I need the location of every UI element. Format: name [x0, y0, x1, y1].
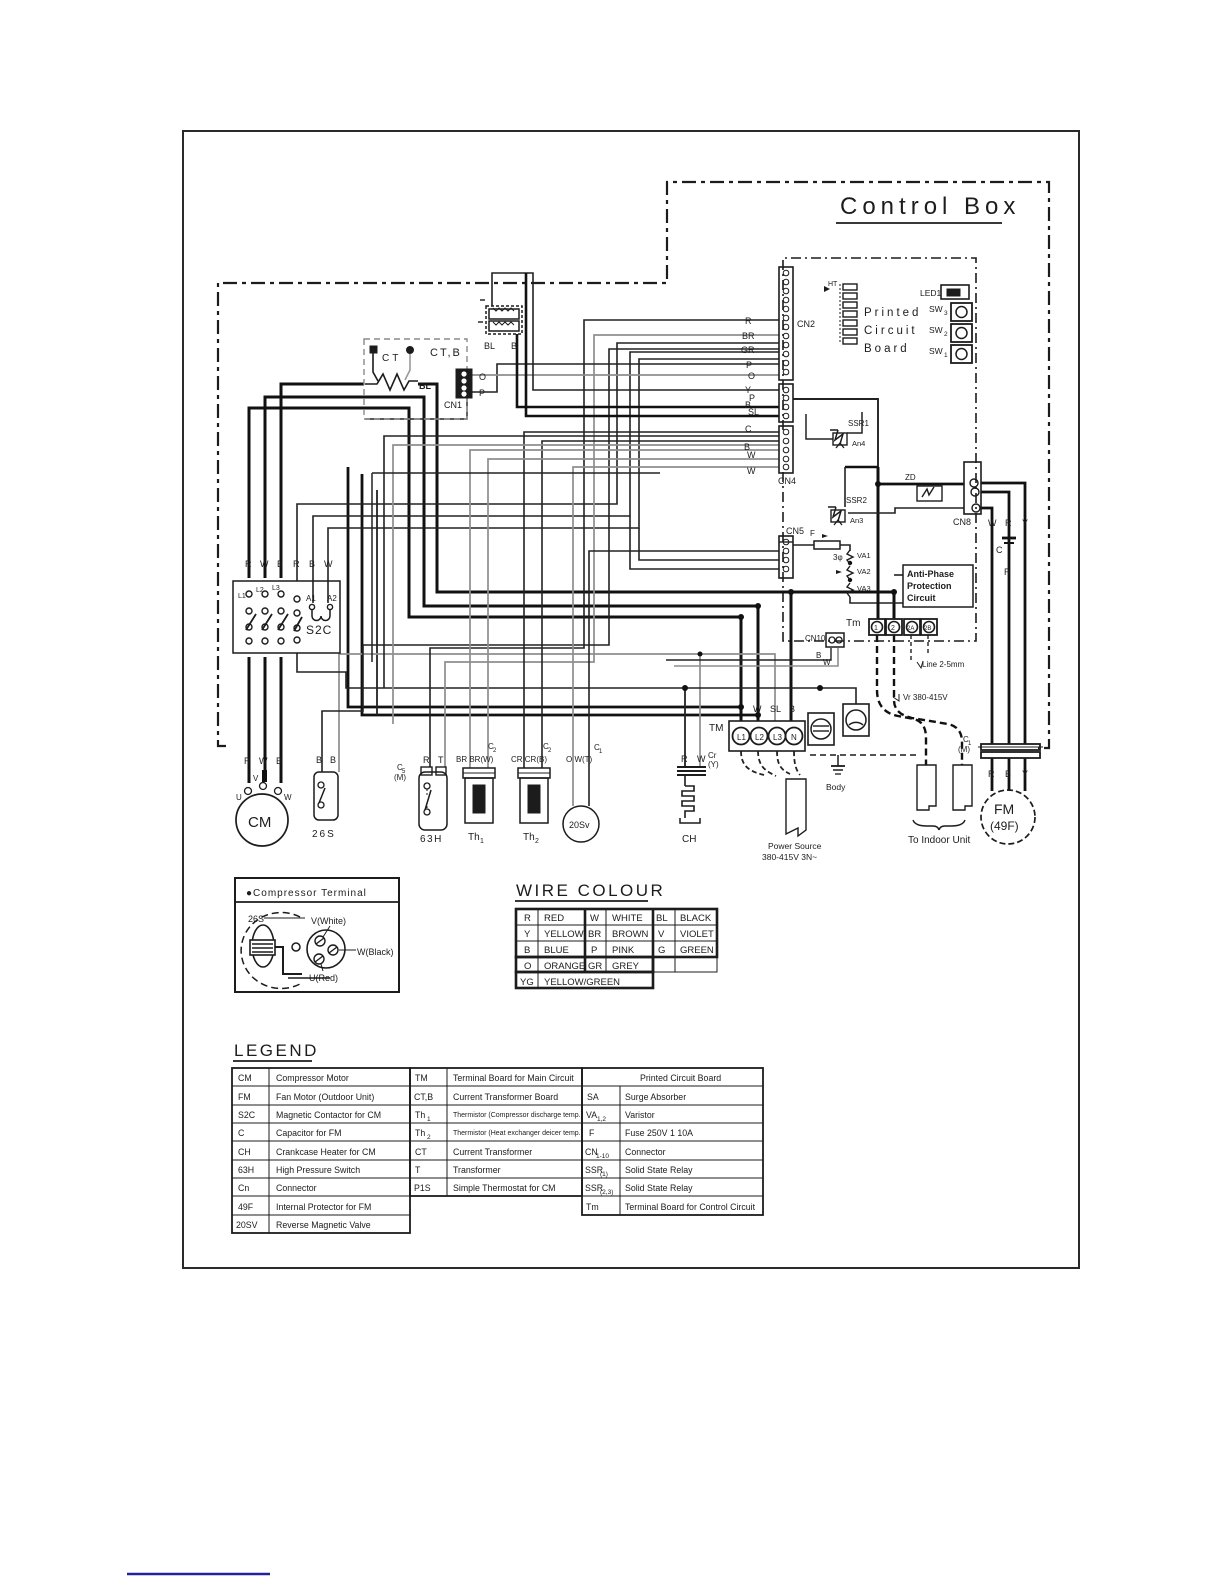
- svg-text:W: W: [753, 704, 762, 714]
- svg-text:Y: Y: [524, 929, 531, 940]
- connector CN8: [953, 462, 981, 527]
- svg-text:A1: A1: [306, 594, 316, 603]
- svg-text:A2: A2: [327, 594, 337, 603]
- svg-text:SW: SW: [929, 304, 943, 314]
- svg-text:V: V: [658, 929, 665, 940]
- wire CM W: [280, 657, 283, 783]
- svg-text:TM: TM: [709, 723, 723, 734]
- svg-text:BL: BL: [656, 913, 668, 924]
- svg-text:B: B: [789, 704, 795, 714]
- svg-text:CT,B: CT,B: [414, 1092, 433, 1102]
- svg-text:Body: Body: [826, 782, 846, 792]
- svg-text:W: W: [284, 793, 292, 802]
- svg-text:WHITE: WHITE: [612, 913, 643, 924]
- wire CH W grey: [699, 654, 701, 767]
- svg-text:Magnetic Contactor for CM: Magnetic Contactor for CM: [276, 1110, 381, 1120]
- svg-text:F: F: [810, 529, 815, 538]
- svg-text:PINK: PINK: [612, 945, 635, 956]
- wire 20SV W to CN5: [589, 551, 779, 806]
- svg-text:Th: Th: [415, 1110, 425, 1120]
- wire B thick via CT to TM N and Tm: [281, 384, 364, 578]
- wire R thick S2C to TM L1: [249, 408, 741, 721]
- svg-text:Varistor: Varistor: [625, 1110, 655, 1120]
- wire S2C aux to fuse holder: [297, 653, 856, 704]
- svg-text:LED1: LED1: [920, 288, 942, 298]
- svg-text:O: O: [479, 372, 486, 382]
- svg-text:Protection: Protection: [907, 581, 952, 591]
- svg-text:RED: RED: [544, 913, 564, 924]
- svg-text:Solid State Relay: Solid State Relay: [625, 1165, 693, 1175]
- svg-text:BR: BR: [588, 929, 601, 940]
- solid state relay SSR1: [830, 419, 869, 448]
- svg-text:Current Transformer: Current Transformer: [453, 1147, 532, 1157]
- svg-text:P: P: [746, 360, 752, 370]
- svg-text:P: P: [479, 388, 485, 398]
- svg-text:Simple Thermostat for CM: Simple Thermostat for CM: [453, 1183, 556, 1193]
- PCB dash-dot boundary: [783, 258, 976, 641]
- svg-text:An3: An3: [850, 516, 863, 525]
- svg-text:SSR1: SSR1: [848, 419, 869, 428]
- svg-text:26S: 26S: [248, 914, 264, 924]
- svg-text:Line 2-5mm: Line 2-5mm: [922, 660, 965, 669]
- svg-text:C: C: [996, 545, 1003, 555]
- svg-text:CN1: CN1: [444, 400, 462, 410]
- svg-text:(Y): (Y): [708, 760, 719, 769]
- svg-text:Thermistor (Compressor dischar: Thermistor (Compressor discharge temp.): [453, 1112, 583, 1119]
- svg-text:S2C: S2C: [238, 1110, 256, 1120]
- svg-text:SW: SW: [929, 325, 943, 335]
- svg-text:Board: Board: [864, 343, 910, 355]
- dashed arc around lens terminal: [241, 913, 300, 989]
- svg-text:CH: CH: [682, 834, 696, 845]
- wire ZD net: [848, 508, 964, 513]
- current transformer board CT,B: [364, 339, 486, 419]
- wire CN1 O grey to CN2: [472, 374, 779, 376]
- svg-text:CM: CM: [248, 814, 271, 831]
- junction dots: [682, 481, 897, 718]
- svg-text:TM: TM: [415, 1073, 428, 1083]
- terminal circle U V W: [307, 930, 345, 968]
- svg-text:W: W: [697, 754, 706, 764]
- capacitor marker on R wire: [1002, 537, 1016, 540]
- wire 20SV O grey: [573, 467, 779, 806]
- thermistor Th1: [456, 742, 497, 845]
- wire Th1 W grey: [470, 450, 779, 768]
- svg-text:Power Source: Power Source: [768, 841, 822, 851]
- high pressure switch 63H: [394, 755, 447, 845]
- wire S2C coil A1 to PCB: [313, 352, 779, 603]
- svg-text:Surge Absorber: Surge Absorber: [625, 1092, 686, 1102]
- svg-text:ZD: ZD: [905, 473, 916, 482]
- svg-text:R: R: [245, 559, 252, 569]
- svg-text:Reverse Magnetic Valve: Reverse Magnetic Valve: [276, 1220, 371, 1230]
- current transformer CT: [370, 346, 377, 353]
- wire branch B to TM N: [790, 592, 793, 721]
- svg-text:SSR2: SSR2: [846, 496, 867, 505]
- dashed stubs Tm 2A 2B: [910, 635, 912, 660]
- connector Cn plug pair (top): [478, 300, 522, 351]
- svg-text:Control Box: Control Box: [840, 193, 1020, 220]
- wire CN10 W lead grey: [674, 648, 838, 666]
- wire S2C coil A2 to PCB: [328, 359, 779, 603]
- svg-text:W: W: [260, 559, 269, 569]
- svg-text:2A: 2A: [907, 626, 914, 632]
- svg-text:R: R: [293, 559, 300, 569]
- svg-text:BLACK: BLACK: [680, 913, 712, 924]
- svg-text:BR BR(W): BR BR(W): [456, 755, 494, 764]
- svg-text:(49F): (49F): [990, 819, 1019, 833]
- svg-text:To Indoor Unit: To Indoor Unit: [908, 835, 970, 846]
- wire Cn plug B1 thick: [517, 334, 779, 407]
- svg-text:Y: Y: [1022, 518, 1028, 528]
- wire anti-phase to B line: [894, 574, 903, 576]
- svg-text:B: B: [511, 341, 517, 351]
- svg-text:T: T: [438, 755, 444, 765]
- svg-text:49F: 49F: [238, 1202, 254, 1212]
- svg-text:C: C: [745, 424, 752, 434]
- svg-text:Current Transformer Board: Current Transformer Board: [453, 1092, 558, 1102]
- anti-phase protection circuit box: [903, 565, 973, 607]
- wire Cn plug B2 thick: [526, 273, 779, 416]
- svg-text:CN2: CN2: [797, 319, 815, 329]
- svg-text:(1): (1): [600, 1171, 608, 1178]
- svg-text:●Compressor Terminal: ●Compressor Terminal: [246, 888, 367, 899]
- svg-text:1-10: 1-10: [596, 1153, 609, 1160]
- svg-text:G: G: [658, 945, 665, 956]
- svg-text:U(Red): U(Red): [309, 973, 338, 983]
- svg-text:Th: Th: [415, 1128, 425, 1138]
- svg-text:W: W: [747, 450, 756, 460]
- svg-text:2: 2: [535, 838, 539, 845]
- varistors VA1 VA2 VA3: [833, 550, 871, 597]
- svg-text:W: W: [259, 756, 268, 766]
- connector CN3 strip: [779, 384, 793, 422]
- fuse F: [810, 529, 840, 549]
- svg-text:SA: SA: [587, 1092, 599, 1102]
- svg-text:BLUE: BLUE: [544, 945, 569, 956]
- svg-text:T: T: [415, 1165, 421, 1175]
- power source arrow: [762, 779, 822, 862]
- svg-text:CR CR(B): CR CR(B): [511, 755, 547, 764]
- wire CH R: [684, 688, 686, 767]
- svg-text:Connector: Connector: [276, 1183, 317, 1193]
- svg-text:VA: VA: [586, 1110, 597, 1120]
- svg-text:W(Black): W(Black): [357, 947, 394, 957]
- svg-text:3φ: 3φ: [833, 553, 843, 562]
- svg-text:P1S: P1S: [414, 1183, 431, 1193]
- legend table: [232, 1041, 763, 1233]
- svg-text:B: B: [277, 559, 283, 569]
- svg-text:R: R: [988, 769, 995, 779]
- svg-text:R: R: [423, 755, 430, 765]
- svg-text:R: R: [745, 316, 752, 326]
- svg-text:1,2: 1,2: [597, 1116, 606, 1123]
- svg-text:SL: SL: [748, 407, 759, 417]
- connector CN4 strip: [778, 426, 796, 486]
- svg-text:Th: Th: [523, 832, 535, 843]
- svg-text:CM: CM: [238, 1073, 252, 1083]
- control box dashed boundary: [218, 182, 1049, 748]
- svg-text:CH: CH: [238, 1147, 251, 1157]
- wire CN2 pin R to 63H: [430, 320, 779, 767]
- wire CN5 to A2 column: [639, 528, 779, 560]
- outer border frame: [183, 131, 1079, 1268]
- thermistor Th2: [511, 742, 552, 845]
- svg-text:CT: CT: [382, 353, 401, 364]
- svg-text:Fan Motor (Outdoor Unit): Fan Motor (Outdoor Unit): [276, 1092, 374, 1102]
- svg-text:(M): (M): [394, 773, 406, 782]
- svg-text:Th: Th: [468, 832, 480, 843]
- svg-text:2B: 2B: [924, 626, 931, 632]
- svg-text:Cn: Cn: [238, 1183, 249, 1193]
- svg-text:B: B: [1005, 769, 1011, 779]
- solid state relay SSR2: [828, 496, 867, 525]
- svg-text:S2C: S2C: [306, 623, 332, 637]
- printed circuit board contents: [824, 281, 972, 363]
- svg-text:BROWN: BROWN: [612, 929, 649, 940]
- svg-text:26S: 26S: [312, 829, 336, 840]
- svg-text:Tm: Tm: [586, 1202, 599, 1212]
- svg-text:YG: YG: [520, 977, 534, 988]
- svg-text:Transformer: Transformer: [453, 1165, 501, 1175]
- svg-text:CN8: CN8: [953, 517, 971, 527]
- dashed drop Tm1 to indoor: [877, 635, 926, 765]
- svg-text:L1: L1: [238, 593, 246, 600]
- wire SSR2 elbow: [845, 466, 878, 468]
- svg-text:SL: SL: [770, 704, 781, 714]
- jumper resistor array: [843, 284, 857, 344]
- small center hole: [292, 943, 300, 951]
- svg-text:FM: FM: [994, 801, 1014, 817]
- svg-text:V(White): V(White): [311, 916, 346, 926]
- connector CN10: [805, 633, 844, 647]
- svg-text:63H: 63H: [238, 1165, 254, 1175]
- wire thick step to TM L1: [348, 467, 741, 707]
- svg-text:(2,3): (2,3): [600, 1189, 613, 1196]
- svg-text:1: 1: [427, 1116, 431, 1123]
- svg-text:O: O: [748, 371, 755, 381]
- wire S2C coil aux1 to PCB: [297, 343, 779, 581]
- wire CN10 B lead: [666, 648, 831, 660]
- svg-text:Y: Y: [1022, 769, 1028, 779]
- svg-text:O W(T): O W(T): [566, 755, 593, 764]
- svg-text:YELLOW: YELLOW: [544, 929, 584, 940]
- svg-text:B: B: [524, 945, 530, 956]
- svg-text:W: W: [590, 913, 599, 924]
- svg-text:380-415V 3N~: 380-415V 3N~: [762, 852, 817, 862]
- svg-text:R: R: [681, 754, 688, 764]
- wire CN5 to A1 column: [630, 516, 779, 569]
- page footer blue line: [127, 1573, 270, 1576]
- wire Th2 B: [542, 441, 779, 768]
- wire left staircase 3: [372, 472, 660, 474]
- svg-text:L2: L2: [755, 733, 764, 742]
- svg-text:ORANGE: ORANGE: [544, 961, 585, 972]
- svg-text:CN4: CN4: [778, 476, 796, 486]
- svg-text:W: W: [823, 658, 831, 667]
- svg-text:L3: L3: [773, 733, 782, 742]
- svg-text:U: U: [236, 793, 242, 802]
- wire R CN8 to FM: [981, 492, 1009, 744]
- svg-text:(M): (M): [958, 745, 970, 754]
- svg-text:Compressor Motor: Compressor Motor: [276, 1073, 349, 1083]
- wire labels left of CN2: [741, 316, 759, 476]
- wire CN1 bottom stub: [365, 398, 467, 419]
- svg-text:2: 2: [944, 331, 948, 338]
- svg-text:Connector: Connector: [625, 1147, 666, 1157]
- svg-text:Capacitor for FM: Capacitor for FM: [276, 1128, 342, 1138]
- svg-text:Crankcase Heater for CM: Crankcase Heater for CM: [276, 1147, 376, 1157]
- wire CN2 pin BR grey to 63H right: [445, 335, 779, 767]
- wire Y CN8 to FM: [981, 483, 1025, 744]
- terminal board TM: [709, 704, 805, 751]
- svg-text:Printed Circuit Board: Printed Circuit Board: [640, 1073, 721, 1083]
- wire colour table: [515, 881, 717, 988]
- svg-text:Terminal Board for Control Cir: Terminal Board for Control Circuit: [625, 1202, 756, 1212]
- svg-text:B: B: [316, 755, 322, 765]
- elbow wire from lens: [275, 947, 302, 974]
- wire CN2 pin GR to 26S: [322, 349, 779, 772]
- dashed TM drops to power source: [741, 751, 764, 775]
- svg-text:B: B: [309, 559, 315, 569]
- svg-text:C: C: [238, 1128, 245, 1138]
- svg-text:2: 2: [891, 625, 895, 632]
- wire thick step to TM L2: [362, 474, 758, 715]
- connector CN5 strip: [779, 526, 804, 578]
- svg-text:GREY: GREY: [612, 961, 640, 972]
- svg-text:W: W: [988, 518, 997, 528]
- svg-text:Terminal Board for Main Circui: Terminal Board for Main Circuit: [453, 1073, 574, 1083]
- svg-text:3: 3: [944, 310, 948, 317]
- svg-text:F: F: [589, 1128, 595, 1138]
- connector CN1: [456, 369, 472, 398]
- svg-text:V: V: [253, 774, 259, 783]
- compressor motor CM: [236, 756, 292, 846]
- wire CN4 left staircase 2 grey: [393, 445, 779, 724]
- wire fuse F to VA stack: [840, 545, 850, 551]
- svg-text:VA3: VA3: [857, 584, 871, 593]
- wire grey SL to TM L3: [339, 654, 775, 772]
- wire extra vertical: [376, 490, 378, 715]
- svg-text:WIRE COLOUR: WIRE COLOUR: [516, 881, 665, 900]
- svg-text:R: R: [1005, 518, 1012, 528]
- svg-text:Anti-Phase: Anti-Phase: [907, 569, 954, 579]
- wire Th1 W2 grey: [488, 459, 779, 768]
- wire thick vertical to Tm 1: [877, 467, 880, 619]
- wire CN4 left staircase 1: [384, 436, 779, 688]
- svg-text:GR: GR: [741, 345, 755, 355]
- reversing valve 20SV: [563, 743, 603, 842]
- fuse holder F: [843, 704, 869, 736]
- svg-text:Vr 380-415V: Vr 380-415V: [903, 693, 948, 702]
- svg-text:Fuse 250V 1 10A: Fuse 250V 1 10A: [625, 1128, 693, 1138]
- wire CN3 P to SSR stack: [793, 399, 878, 467]
- wire W thick S2C to TM L2: [265, 397, 758, 721]
- wire W CN8 to FM: [981, 508, 992, 744]
- svg-text:SW: SW: [929, 346, 943, 356]
- svg-text:L1: L1: [737, 733, 746, 742]
- connector CN2 strip: [779, 267, 815, 380]
- svg-text:Cr: Cr: [708, 751, 717, 760]
- svg-text:1: 1: [944, 352, 948, 359]
- dashed drop Tm2 to indoor: [894, 635, 962, 765]
- capacitor C for FM: [958, 735, 1043, 758]
- svg-text:W: W: [747, 466, 756, 476]
- wire VA bottom to anti-phase: [850, 597, 903, 603]
- compressor terminal inset box: [235, 878, 399, 992]
- svg-text:VA2: VA2: [857, 567, 871, 576]
- svg-text:Internal Protector for FM: Internal Protector for FM: [276, 1202, 371, 1212]
- svg-text:VA1: VA1: [857, 551, 871, 560]
- svg-text:LEGEND: LEGEND: [234, 1041, 319, 1060]
- wire CN5 stub1: [779, 541, 793, 543]
- svg-text:L3: L3: [272, 585, 280, 592]
- svg-text:Printed: Printed: [864, 307, 921, 319]
- svg-text:1: 1: [480, 838, 484, 845]
- svg-text:B: B: [276, 756, 282, 766]
- fan motor FM (49F): [981, 769, 1035, 844]
- svg-text:GREEN: GREEN: [680, 945, 714, 956]
- crankcase heater CH: [677, 751, 719, 845]
- svg-text:1: 1: [874, 625, 878, 632]
- svg-text:O: O: [524, 961, 531, 972]
- svg-text:An4: An4: [852, 439, 865, 448]
- svg-text:YELLOW/GREEN: YELLOW/GREEN: [544, 977, 620, 988]
- diode ZD: [905, 473, 942, 501]
- svg-text:R: R: [524, 913, 531, 924]
- wire Cn plug top loop: [492, 273, 779, 390]
- svg-text:GR: GR: [588, 961, 602, 972]
- svg-text:CN10: CN10: [805, 634, 826, 643]
- svg-text:Circuit: Circuit: [907, 593, 936, 603]
- svg-text:Tm: Tm: [846, 618, 860, 629]
- svg-text:BL: BL: [484, 341, 495, 351]
- svg-text:W: W: [324, 559, 333, 569]
- to indoor unit flags: [908, 765, 972, 846]
- wire fuse F to CN5: [793, 544, 814, 546]
- wires FM leads: [991, 758, 994, 791]
- svg-text:Solid State Relay: Solid State Relay: [625, 1183, 693, 1193]
- svg-text:BL: BL: [419, 381, 431, 391]
- wire thick to CN8 pin1: [878, 483, 964, 486]
- svg-text:20Sv: 20Sv: [569, 820, 590, 830]
- transformer T: [808, 713, 834, 745]
- svg-text:B: B: [816, 651, 821, 660]
- lens shape 26S: [252, 925, 274, 967]
- wire SSR1 leads: [806, 414, 833, 439]
- svg-text:R: R: [1004, 567, 1011, 577]
- svg-text:CT: CT: [415, 1147, 427, 1157]
- wire CN1 P to CN2: [472, 364, 779, 392]
- thermostat 26S: [312, 755, 338, 840]
- svg-text:P: P: [591, 945, 597, 956]
- terminal board Tm: [846, 618, 937, 635]
- svg-text:Thermistor (Heat exchanger dei: Thermistor (Heat exchanger deicer temp.): [453, 1130, 583, 1137]
- svg-text:20SV: 20SV: [236, 1220, 258, 1230]
- svg-text:B: B: [330, 755, 336, 765]
- svg-text:63H: 63H: [420, 834, 443, 845]
- title Control Box: [836, 193, 1020, 223]
- wire CM U: [248, 657, 251, 783]
- svg-text:High Pressure Switch: High Pressure Switch: [276, 1165, 360, 1175]
- svg-text:CT,B: CT,B: [430, 347, 462, 359]
- svg-text:R: R: [244, 756, 251, 766]
- svg-text:BR: BR: [742, 331, 755, 341]
- svg-text:HT: HT: [828, 281, 838, 288]
- svg-text:L2: L2: [256, 587, 264, 594]
- svg-text:Circuit: Circuit: [864, 325, 918, 337]
- wire CM V: [264, 657, 267, 779]
